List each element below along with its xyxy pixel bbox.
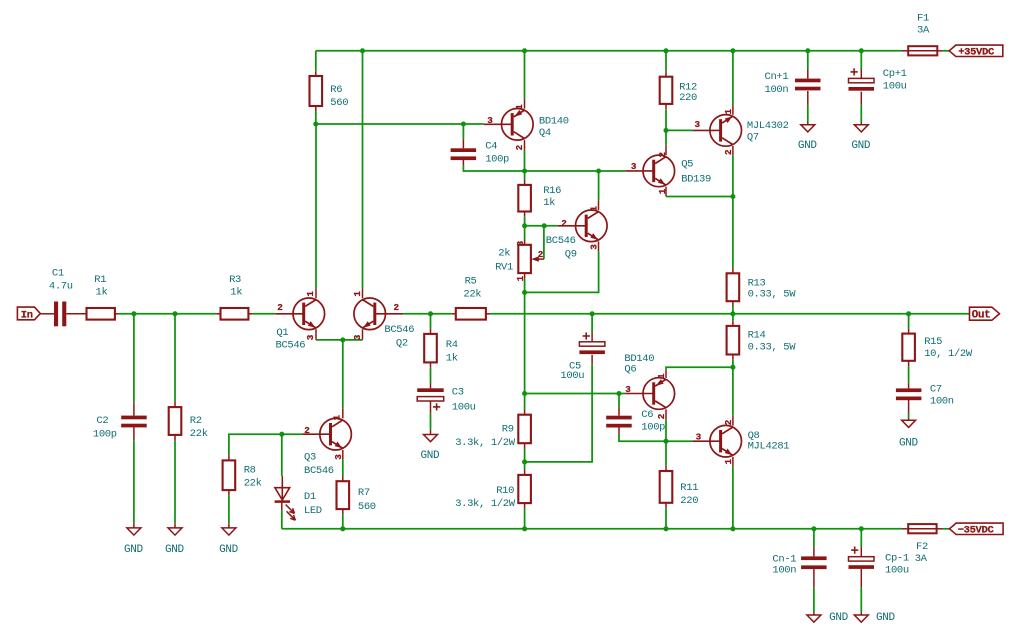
svg-text:100u: 100u <box>560 370 584 382</box>
svg-text:MJL4281: MJL4281 <box>748 441 790 453</box>
svg-text:GND: GND <box>421 450 441 462</box>
svg-text:2: 2 <box>394 302 400 313</box>
svg-text:Q6: Q6 <box>624 363 636 375</box>
pin 1 Q9 <box>588 206 599 212</box>
svg-text:3A: 3A <box>915 553 928 565</box>
fuse F2 <box>902 524 950 533</box>
pin 3 Q1 <box>305 334 316 340</box>
transistor Q2 <box>354 298 403 330</box>
svg-text:560: 560 <box>330 97 348 109</box>
wire D1 branch <box>281 434 284 488</box>
label R7 <box>358 487 376 513</box>
transistor Q4 <box>484 109 533 141</box>
connector Out flag <box>970 307 1000 322</box>
svg-text:1k: 1k <box>230 286 242 298</box>
wire C4 top <box>462 124 464 148</box>
label C5 <box>560 361 584 383</box>
resistor R16 <box>518 185 531 212</box>
wire Q3 emitter R7 <box>342 450 344 529</box>
wire node to Q7 base <box>666 129 692 131</box>
capacitor C6 <box>606 416 632 428</box>
svg-text:R8: R8 <box>244 464 256 476</box>
label R9 <box>455 424 516 450</box>
svg-text:GND: GND <box>165 544 185 556</box>
wire node Q9 base <box>525 225 558 227</box>
resistor R1 <box>87 308 115 320</box>
svg-text:220: 220 <box>679 92 697 104</box>
svg-text:3: 3 <box>695 119 701 130</box>
wire Q3 base <box>282 433 302 435</box>
wire C4 bottom to Q5 base <box>463 160 625 171</box>
label R1 <box>94 274 107 298</box>
svg-text:+35VDC: +35VDC <box>958 47 995 59</box>
wire Q5 emitter to Q7 line <box>666 187 733 197</box>
wire Q6 collector <box>666 367 733 378</box>
label F2 <box>915 541 928 565</box>
label R13 <box>748 277 797 300</box>
pin 3 Q8 <box>696 431 702 442</box>
label Q1 <box>276 327 306 352</box>
label Cn-1 <box>772 554 796 577</box>
svg-text:RV1: RV1 <box>495 262 513 274</box>
svg-text:GND: GND <box>829 612 849 624</box>
svg-text:Q9: Q9 <box>565 248 577 260</box>
pin 3 Q3 <box>333 454 344 460</box>
label D1 <box>304 491 322 517</box>
svg-text:1: 1 <box>723 459 734 465</box>
svg-text:22k: 22k <box>244 478 262 490</box>
resistor R10 <box>518 475 531 503</box>
svg-text:3: 3 <box>589 244 600 250</box>
svg-text:220: 220 <box>680 495 698 507</box>
label GND C7 <box>899 438 919 450</box>
wire C3 gnd stem <box>430 401 432 434</box>
label GND Cp-1 <box>876 612 896 624</box>
transistor Q6 <box>625 378 674 410</box>
svg-text:In: In <box>21 310 33 322</box>
resistor R5 <box>456 308 486 320</box>
wire Q9 collector <box>598 171 600 210</box>
svg-text:R10: R10 <box>496 485 514 497</box>
wire R3 to Q1 base <box>248 313 275 315</box>
label R5 <box>463 275 481 300</box>
connector In flag <box>17 307 40 322</box>
label Q6 <box>624 353 654 376</box>
svg-text:BC546: BC546 <box>304 465 334 477</box>
svg-text:3: 3 <box>333 454 344 460</box>
pin 1 Q7 <box>723 109 734 115</box>
resistor R15 <box>902 334 915 361</box>
svg-text:2: 2 <box>304 425 310 436</box>
LED D1 <box>275 481 296 520</box>
label R4 <box>446 339 458 364</box>
transistor Q8 <box>692 425 741 457</box>
svg-text:1: 1 <box>352 291 363 297</box>
svg-text:R16: R16 <box>543 185 561 197</box>
svg-text:0.33, 5W: 0.33, 5W <box>748 342 797 354</box>
svg-text:GND: GND <box>798 140 818 152</box>
svg-text:2: 2 <box>277 302 283 313</box>
wire Q8 emitter <box>732 457 734 529</box>
svg-text:BC546: BC546 <box>546 235 576 247</box>
label Q9 <box>546 235 577 260</box>
svg-text:100u: 100u <box>452 402 476 414</box>
label Q5 <box>681 159 711 186</box>
label R11 <box>680 482 698 507</box>
transistor Q9 <box>558 210 607 242</box>
svg-text:100p: 100p <box>641 421 665 433</box>
svg-text:22k: 22k <box>190 428 208 440</box>
label C7 <box>930 384 954 408</box>
svg-text:R11: R11 <box>680 482 698 494</box>
transistor Q1 <box>275 298 324 330</box>
svg-text:R4: R4 <box>446 339 458 351</box>
svg-text:R9: R9 <box>502 424 514 436</box>
resistor R8 <box>223 460 236 490</box>
svg-text:R6: R6 <box>330 84 342 96</box>
svg-text:3A: 3A <box>917 24 930 36</box>
svg-text:−35VDC: −35VDC <box>958 525 995 537</box>
capacitor C7 <box>896 388 922 400</box>
svg-text:GND: GND <box>876 612 896 624</box>
svg-text:R2: R2 <box>190 415 202 427</box>
ground for R2 <box>168 528 182 535</box>
wire R12 links <box>665 51 667 131</box>
resistor R14 <box>727 326 740 355</box>
svg-text:Q1: Q1 <box>276 327 288 339</box>
label Q3 <box>304 451 334 477</box>
svg-text:GND: GND <box>851 140 871 152</box>
svg-text:1: 1 <box>657 188 668 194</box>
wire R1 to R3 <box>115 313 221 315</box>
label C2 <box>93 415 117 441</box>
svg-text:560: 560 <box>358 501 376 513</box>
wire Q7 bottom <box>732 146 734 197</box>
label GND Cn+1 <box>798 140 818 152</box>
svg-text:C6: C6 <box>641 409 653 421</box>
svg-text:22k: 22k <box>463 289 481 301</box>
label C1 <box>49 267 73 292</box>
ground for C3 <box>424 435 438 442</box>
power flag +35VDC <box>949 45 1003 59</box>
svg-text:R15: R15 <box>924 336 942 348</box>
ground for R8 <box>222 528 236 535</box>
resistor R13 <box>727 273 740 301</box>
ground for Cn-1 <box>807 615 821 622</box>
transistor Q3 <box>302 418 351 450</box>
svg-text:100n: 100n <box>930 395 954 407</box>
wire R8 branch <box>229 434 282 528</box>
ground for C7 <box>902 420 916 427</box>
svg-text:1: 1 <box>723 109 734 115</box>
label RV1 <box>495 248 513 274</box>
label F1 <box>917 13 930 37</box>
label Cp-1 <box>885 553 909 577</box>
wire node to Q6 base <box>525 393 626 395</box>
svg-text:0.33, 5W: 0.33, 5W <box>748 289 797 301</box>
wire Cn+1 gnd stem <box>807 91 809 125</box>
svg-text:BC546: BC546 <box>276 340 306 352</box>
wire Q4 collector <box>524 51 526 109</box>
pin 3 RV1 <box>515 240 526 246</box>
pin 1 RV1 <box>515 275 526 281</box>
wire Q2 base to R5 <box>403 313 456 315</box>
capacitor C4 <box>451 148 477 160</box>
wire R2 branch <box>174 314 176 528</box>
pin 2 Q5 <box>657 152 668 158</box>
svg-text:3: 3 <box>487 115 493 126</box>
pin 1 Q5 <box>657 188 668 194</box>
pin 2 RV1 <box>538 249 544 260</box>
wire Cn+1 top <box>807 51 809 79</box>
svg-text:R1: R1 <box>94 274 106 286</box>
label R8 <box>244 464 262 489</box>
svg-text:1: 1 <box>305 291 316 297</box>
label R12 <box>679 82 697 105</box>
pin 3 Q9 <box>589 244 600 250</box>
svg-text:2: 2 <box>723 149 734 155</box>
svg-text:R14: R14 <box>748 330 766 342</box>
svg-text:F2: F2 <box>916 541 928 553</box>
svg-text:C3: C3 <box>452 387 464 399</box>
wire Q2 collector <box>362 51 364 298</box>
wire RV1 wiper link <box>543 226 545 259</box>
label GND Cp+1 <box>851 140 871 152</box>
wire R6 bottom to node <box>315 106 317 124</box>
svg-text:MJL4302: MJL4302 <box>747 120 789 132</box>
svg-text:Q4: Q4 <box>539 127 551 139</box>
svg-text:100u: 100u <box>885 565 909 577</box>
wire R10 links <box>524 462 526 529</box>
svg-text:R5: R5 <box>465 275 477 287</box>
pin 2 Q7 <box>723 149 734 155</box>
wire Cp+1 gnd stem <box>860 92 862 125</box>
wire R5 to Out <box>486 313 970 315</box>
svg-text:1: 1 <box>515 275 526 281</box>
pin 1 Q1 <box>305 291 316 297</box>
pin 1 Q8 <box>723 459 734 465</box>
svg-text:3: 3 <box>631 161 637 172</box>
capacitor C2 <box>121 416 147 428</box>
wire Q1 Q2 emitters <box>316 329 363 340</box>
label Q4 <box>539 115 569 139</box>
wire R15 links <box>908 314 910 389</box>
wire main vertical mid <box>524 292 526 393</box>
svg-text:GND: GND <box>124 544 144 556</box>
wire Q5 collector <box>665 130 667 155</box>
svg-text:3: 3 <box>696 431 702 442</box>
label GND Cn-1 <box>829 612 849 624</box>
pin 2 Q1 <box>277 302 283 313</box>
label Q8 <box>748 430 790 452</box>
svg-text:3.3k, 1/2W: 3.3k, 1/2W <box>455 437 516 449</box>
label R15 <box>924 336 973 360</box>
label R2 <box>190 415 208 440</box>
label R16 <box>543 185 561 209</box>
pin 1 Q3 <box>332 414 343 420</box>
pin 3 Q7 <box>695 119 701 130</box>
pin 2 Q9 <box>561 218 567 229</box>
wire RV1 vertical <box>524 226 526 293</box>
svg-text:C1: C1 <box>52 267 64 279</box>
svg-text:Q7: Q7 <box>747 131 759 143</box>
svg-text:C2: C2 <box>96 415 108 427</box>
svg-text:Out: Out <box>972 310 991 322</box>
svg-text:BD140: BD140 <box>539 115 569 127</box>
wire Cn-1 branch <box>813 529 815 615</box>
label C4 <box>485 141 509 166</box>
svg-text:2k: 2k <box>498 248 510 260</box>
label Q7 <box>747 120 789 143</box>
wire C6 link <box>619 394 692 442</box>
svg-text:2: 2 <box>657 152 668 158</box>
svg-text:R7: R7 <box>358 487 370 499</box>
pin 3 Q4 <box>487 115 493 126</box>
wire Q4 emitter <box>524 140 526 171</box>
wire -35V bottom rail <box>282 528 902 530</box>
wire R6 top stub <box>315 51 317 76</box>
wire In to C1 <box>40 313 54 315</box>
svg-text:3: 3 <box>305 334 316 340</box>
label C6 <box>641 409 665 433</box>
svg-text:1: 1 <box>588 206 599 212</box>
capacitor Cn-1 <box>801 556 827 569</box>
transistor Q7 <box>692 115 741 147</box>
svg-text:LED: LED <box>304 505 322 517</box>
svg-text:BC546: BC546 <box>384 324 414 336</box>
wire R14 links <box>732 314 734 367</box>
label GND R2 <box>165 544 185 556</box>
resistor R9 <box>518 415 531 444</box>
svg-text:2: 2 <box>723 419 734 425</box>
wire +35V top rail <box>316 50 902 52</box>
svg-text:2: 2 <box>656 413 667 419</box>
wire R13 links <box>732 197 734 314</box>
wire Q9 emitter return <box>525 241 599 292</box>
label Cn+1 <box>765 71 789 96</box>
pin 2 Q2 <box>394 302 400 313</box>
svg-text:100n: 100n <box>772 565 796 577</box>
ground for Cn+1 <box>801 125 815 132</box>
pin 2 Q4 <box>514 144 525 150</box>
pin 3 Q2 <box>352 334 363 340</box>
wire tail node down <box>342 340 344 418</box>
wire C2 branch <box>133 314 135 528</box>
wire R16 link <box>524 171 526 226</box>
pin 3 Q5 <box>631 161 637 172</box>
capacitor C1 <box>54 302 66 327</box>
pin 1 Q6 <box>656 373 667 379</box>
svg-text:1k: 1k <box>543 197 555 209</box>
svg-text:3: 3 <box>515 240 526 246</box>
resistor R4 <box>424 334 437 363</box>
label C3 <box>452 387 476 414</box>
svg-text:2: 2 <box>561 218 567 229</box>
pin 2 Q8 <box>723 419 734 425</box>
fuse F1 <box>902 46 949 55</box>
wire Cp+1 top <box>860 51 862 79</box>
wire R11 links <box>665 441 667 529</box>
wire Q6 emitter <box>665 409 667 441</box>
svg-text:R3: R3 <box>229 274 241 286</box>
pin 1 Q4 <box>514 104 525 110</box>
resistor R2 <box>169 407 182 435</box>
capacitor Cn+1 <box>795 79 821 91</box>
svg-text:100u: 100u <box>883 80 907 92</box>
svg-text:Q2: Q2 <box>396 338 408 350</box>
svg-text:F1: F1 <box>917 13 929 25</box>
svg-text:Cn+1: Cn+1 <box>765 71 789 83</box>
pin 1 Q2 <box>352 291 363 297</box>
resistor R11 <box>660 471 673 503</box>
svg-text:1: 1 <box>332 414 343 420</box>
svg-text:10, 1/2W: 10, 1/2W <box>924 348 973 360</box>
label GND C3 <box>421 450 441 462</box>
label R6 <box>330 84 348 109</box>
wire C5 branch <box>525 314 593 462</box>
resistor R6 <box>310 76 323 106</box>
svg-text:100p: 100p <box>93 428 117 440</box>
wire Q1 collector <box>315 124 317 298</box>
wire C1 to R1 <box>66 313 86 315</box>
svg-text:GND: GND <box>219 544 239 556</box>
svg-text:GND: GND <box>899 438 919 450</box>
capacitor C5 <box>579 332 605 354</box>
svg-text:Cp+1: Cp+1 <box>883 68 907 80</box>
wire node 124 horizontal <box>316 123 484 125</box>
capacitor C3 <box>417 388 444 410</box>
ground for Cp-1 <box>854 615 868 622</box>
label R10 <box>455 485 516 510</box>
svg-text:Cn-1: Cn-1 <box>772 554 796 566</box>
svg-text:Q5: Q5 <box>681 159 693 171</box>
resistor R3 <box>221 308 249 320</box>
svg-text:3: 3 <box>352 334 363 340</box>
svg-text:1k: 1k <box>446 352 458 364</box>
wire Cp-1 branch <box>860 529 862 615</box>
pin 3 Q6 <box>625 384 631 395</box>
wire R9 links <box>524 394 526 462</box>
svg-text:3: 3 <box>625 384 631 395</box>
label Cp+1 <box>883 68 907 92</box>
capacitor Cp-1 <box>849 547 875 569</box>
svg-text:C4: C4 <box>485 141 497 153</box>
wire D1 to rail <box>281 503 283 529</box>
label R14 <box>748 330 797 354</box>
svg-text:1: 1 <box>656 373 667 379</box>
svg-text:4.7u: 4.7u <box>49 280 73 292</box>
svg-text:100p: 100p <box>485 154 509 166</box>
wire C7 gnd stem <box>908 400 910 420</box>
label R3 <box>229 274 242 298</box>
transistor Q5 <box>625 155 674 187</box>
svg-text:Cp-1: Cp-1 <box>885 553 909 565</box>
svg-text:C7: C7 <box>930 384 942 396</box>
wire Q7 emitter top <box>732 51 734 115</box>
label GND R8 <box>219 544 239 556</box>
resistor R12 <box>660 77 673 104</box>
power flag -35VDC <box>950 523 1004 537</box>
svg-text:BD139: BD139 <box>681 174 711 186</box>
pin 2 Q6 <box>656 413 667 419</box>
capacitor Cp+1 <box>849 68 875 90</box>
ground for C2 <box>127 528 141 535</box>
wire R4 branch <box>430 314 432 389</box>
label GND C2 <box>124 544 144 556</box>
svg-text:2: 2 <box>538 249 544 260</box>
svg-text:1: 1 <box>514 104 525 110</box>
wire Q8 collector <box>732 367 734 425</box>
